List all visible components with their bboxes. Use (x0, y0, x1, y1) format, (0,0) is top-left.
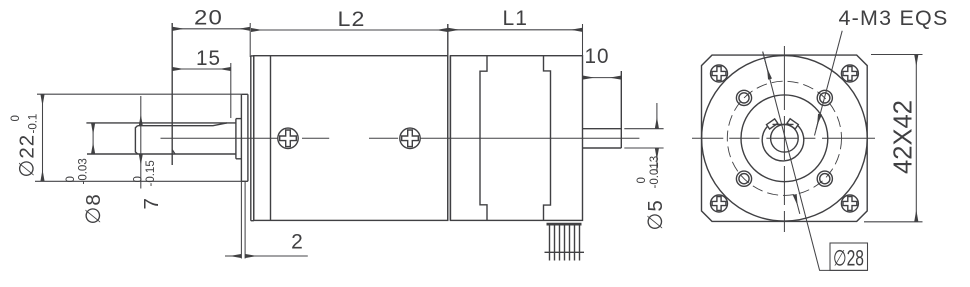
dimensions group (35, 23, 664, 259)
rear shaft bottom (583, 147, 622, 149)
leader d28 arrowhead on bolt circle (795, 195, 800, 214)
pilot boss bottom (236, 158, 242, 160)
dim d8 line (92, 124, 94, 154)
front view horizontal centerline (692, 137, 875, 139)
dim d5 upper arrow (656, 103, 658, 128)
text d8 with tolerance (65, 158, 105, 224)
svg-text:-0.1: -0.1 (28, 114, 40, 134)
dim d22 bottom extension (35, 180, 241, 182)
boss d22 top (241, 93, 248, 95)
gearbox screw 1 (278, 128, 298, 148)
d28 label box (830, 243, 868, 270)
dim 15 line (173, 68, 230, 70)
shaft circle (771, 125, 799, 153)
side view centerline (161, 137, 640, 139)
leader 4-M3 arrowhead (816, 115, 820, 130)
svg-text:∅8: ∅8 (82, 193, 105, 224)
flange plate top edge (251, 55, 254, 57)
dim 2 left arrow (225, 255, 241, 257)
text d5 with tolerance (636, 156, 667, 231)
dim 15 right extension (230, 63, 232, 118)
svg-text:7: 7 (140, 197, 163, 209)
rear shaft top (583, 128, 622, 130)
gearbox screw 2 (400, 128, 420, 148)
rear shaft end face and dim extension (620, 71, 622, 148)
pilot boss top (236, 118, 242, 120)
svg-text:15: 15 (196, 47, 221, 70)
corner screw bottom-left (711, 195, 728, 212)
dim d5 lower arrow (656, 149, 658, 172)
corner screw bottom-right (841, 195, 858, 212)
corner screw top-left (711, 65, 728, 82)
svg-text:L1: L1 (503, 7, 528, 30)
svg-text:∅22: ∅22 (16, 134, 39, 178)
dim d5 bottom extension (624, 147, 663, 149)
dim 2 right arrow with tail (246, 255, 308, 257)
dim 20 right extension (249, 23, 251, 57)
flange plate front face (250, 56, 252, 221)
svg-text:20: 20 (194, 7, 223, 30)
M3 hole top-right (817, 90, 832, 105)
motor front end-cap seam (480, 56, 487, 221)
bolt circle d28 (dashed) (727, 81, 841, 195)
dim L1 right extension (582, 24, 584, 56)
motor front face (449, 56, 451, 221)
output shaft flat line with ramp (138, 123, 227, 126)
dim 7 line through (140, 126, 142, 154)
dim 2 right extension (244, 181, 246, 258)
wire bottom bar (545, 251, 585, 253)
front view vertical centerline (783, 46, 785, 232)
shaft flat step / dim extension line (171, 23, 173, 165)
leader 4-M3 (815, 31, 843, 136)
dimension texts (10, 7, 667, 254)
wire connector cap (547, 223, 582, 226)
dim L2 line (251, 29, 447, 31)
motor body outline (450, 56, 582, 221)
dim d22 top extension (37, 93, 241, 95)
dim 42x42 line (915, 55, 917, 221)
output shaft tip face (135, 126, 137, 154)
gearbox front cover seam (270, 56, 272, 221)
gearbox back face / L2-L1 boundary with dim extension (447, 24, 449, 220)
dim 10 line (583, 77, 620, 79)
svg-text:0: 0 (636, 177, 648, 183)
text 7 with tolerance (133, 160, 164, 209)
boss d22 bottom (241, 180, 248, 182)
front view texts (833, 7, 949, 271)
dim 20 line (173, 28, 250, 30)
retaining ring around shaft (762, 126, 804, 161)
pilot circle d22 (741, 95, 828, 182)
housing circle (702, 56, 868, 222)
svg-text:42X42: 42X42 (888, 100, 918, 174)
dim 42x42 bottom extension (864, 221, 923, 223)
leader d28 arrowhead near bend (763, 52, 770, 79)
leader d28 long line (763, 52, 868, 271)
wire leads (550, 223, 580, 252)
dim 7 upper arrow (140, 96, 142, 126)
dim d22 line (42, 95, 44, 181)
gearbox body outline (254, 56, 448, 221)
svg-text:-0.03: -0.03 (78, 158, 90, 184)
dim d5 top extension (624, 128, 663, 130)
M3 hole bottom-right (817, 171, 832, 186)
svg-text:∅28: ∅28 (833, 246, 864, 271)
retaining ring right tab (787, 119, 798, 129)
flange plate bottom edge (251, 220, 254, 222)
svg-text:0: 0 (10, 115, 22, 121)
motor rear end-cap seam (544, 56, 551, 221)
svg-text:-0.15: -0.15 (145, 160, 157, 186)
svg-text:10: 10 (585, 45, 610, 68)
shaft flat chord (773, 123, 794, 125)
boss d22 front face (240, 94, 242, 181)
svg-text:2: 2 (291, 231, 304, 254)
output shaft bottom line with dim extension (87, 153, 236, 155)
M3 hole top-left (736, 90, 751, 105)
dim 42x42 top extension (871, 54, 923, 56)
wire stubs (550, 252, 580, 260)
flange plate back face (253, 56, 255, 221)
svg-text:∅5: ∅5 (644, 199, 667, 230)
shaft flat step fillet (172, 150, 175, 154)
svg-text:-0.013: -0.013 (649, 156, 661, 189)
boss d22 back face (247, 94, 249, 181)
M3 hole bottom-left (736, 171, 751, 186)
dim 7 lower arrow (140, 154, 142, 188)
svg-text:4-M3 EQS: 4-M3 EQS (839, 7, 949, 30)
dim L1 line (449, 29, 582, 31)
svg-text:0: 0 (133, 176, 145, 182)
svg-text:0: 0 (65, 176, 77, 182)
svg-text:L2: L2 (338, 8, 366, 31)
output shaft top line with dim extension (86, 122, 236, 124)
pilot boss front face (235, 119, 237, 159)
corner screw top-right (841, 65, 858, 82)
retaining ring left tab (766, 119, 777, 129)
dim 2 left extension (240, 181, 242, 258)
text d22 with tolerance (10, 114, 40, 178)
flange square with chamfered corners (702, 55, 868, 221)
